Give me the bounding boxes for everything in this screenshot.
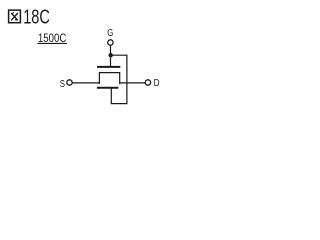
svg-text:18C: 18C: [23, 6, 50, 28]
svg-text:S: S: [60, 78, 65, 90]
svg-text:1500C: 1500C: [38, 31, 67, 45]
svg-text:D: D: [154, 77, 160, 89]
svg-text:G: G: [107, 27, 113, 39]
